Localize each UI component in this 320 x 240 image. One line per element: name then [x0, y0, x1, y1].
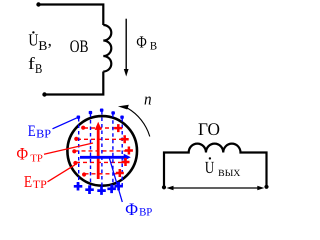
svg-text:ВЫХ: ВЫХ [218, 169, 240, 179]
callout line E_BP [53, 118, 78, 129]
svg-text:ГО: ГО [198, 119, 220, 139]
rotational current dots (top, blue) [77, 109, 124, 119]
label Phi_TP [16, 144, 43, 165]
svg-text:В: В [38, 38, 47, 53]
transformer current pluses (right, red) [114, 124, 133, 177]
svg-text:,: , [48, 31, 52, 50]
svg-text:Ф: Ф [136, 33, 147, 52]
svg-text:n: n [144, 90, 152, 109]
transformer current dots (left, red) [72, 126, 86, 177]
callout line Phi_BP [110, 159, 123, 203]
label E_TP [24, 172, 47, 191]
flux arrow Phi_B [124, 19, 129, 77]
svg-text:ТР: ТР [33, 179, 47, 191]
svg-text:ТР: ТР [30, 153, 43, 164]
terminal dot top [36, 2, 40, 6]
svg-text:В: В [150, 40, 158, 52]
flux line red dashed horizontals [75, 128, 129, 174]
label U_B [28, 31, 51, 53]
flux arrow Phi_BP (blue, right) [80, 154, 131, 161]
label E_BP [28, 123, 52, 141]
flux arrow Phi_TP (red, up) [95, 122, 102, 179]
svg-text:E: E [28, 123, 36, 140]
svg-text:Ф: Ф [125, 199, 138, 219]
label U_vyh [205, 157, 241, 179]
svg-text:ВР: ВР [36, 126, 51, 140]
rotational current pluses (bottom, blue) [74, 182, 123, 195]
rotation arc n [118, 105, 150, 137]
svg-text:U: U [205, 158, 215, 177]
callout line E_TP [48, 165, 76, 182]
rotor circle [67, 116, 137, 186]
svg-text:E: E [24, 172, 32, 191]
flux line blue dashed verticals [79, 111, 123, 190]
svg-text:ВР: ВР [139, 207, 152, 219]
wire bottom [45, 72, 104, 95]
terminal dot bottom [42, 92, 46, 96]
svg-text:ОВ: ОВ [70, 36, 89, 56]
svg-text:Ф: Ф [16, 144, 28, 164]
coil OB [103, 25, 111, 72]
output voltage double arrow [167, 186, 265, 191]
callout line Phi_TP [44, 143, 93, 154]
label f_B [28, 54, 42, 76]
output winding circuit GO [162, 144, 269, 190]
svg-text:В: В [35, 61, 42, 76]
label Phi_BP [125, 199, 152, 219]
label Phi_B [136, 33, 157, 53]
wire top [39, 5, 104, 26]
